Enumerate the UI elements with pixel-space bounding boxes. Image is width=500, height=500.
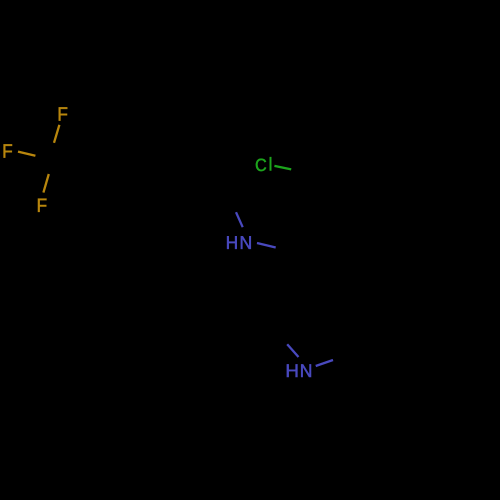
fluorine F2 (left) label: [4, 144, 12, 157]
bond N-CH2 half segment (upper left): [236, 212, 243, 227]
bond N1-C2 half segment (upper left): [287, 344, 298, 357]
fluorine F3 (bottom) label: [38, 199, 46, 212]
bond C-Cl half segment: [274, 166, 291, 170]
chlorine Cl label: [256, 157, 271, 171]
bond N-CH half segment (lower right): [257, 243, 276, 248]
bond C-F1 half segment: [54, 125, 59, 143]
bond N1-C7a half segment (upper right): [316, 360, 333, 366]
secondary amine HN (upper) label: [227, 236, 251, 249]
bond C-F3 half segment: [43, 174, 48, 193]
carbon skeleton (black bonds, invisible on black background): [52, 130, 308, 290]
indole N1-H label (lower HN): [287, 364, 311, 377]
fluorine F1 (top) label: [59, 107, 67, 120]
bond C-F2 half segment: [18, 152, 35, 156]
